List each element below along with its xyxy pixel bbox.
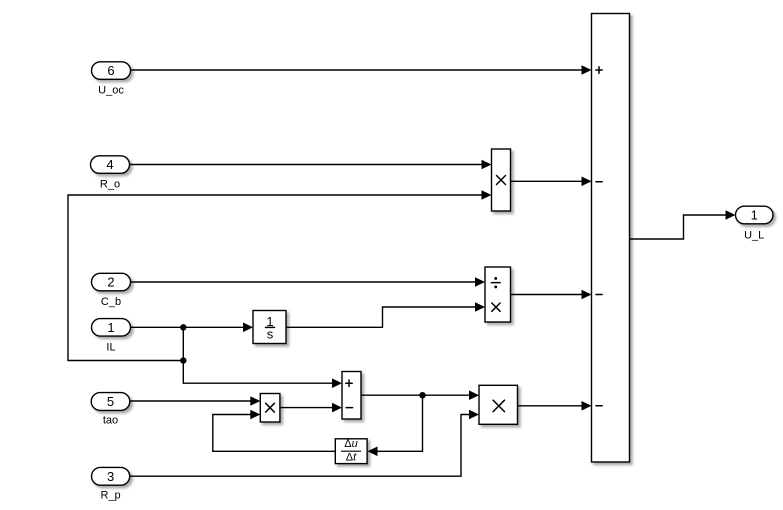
svg-text:5: 5: [107, 394, 114, 409]
svg-text:U_L: U_L: [744, 230, 764, 242]
svg-text:R_p: R_p: [101, 490, 121, 502]
svg-text:3: 3: [107, 469, 114, 484]
svg-text:Δt: Δt: [346, 452, 357, 464]
svg-text:tao: tao: [103, 415, 118, 427]
svg-text:Δu: Δu: [344, 438, 357, 450]
svg-text:4: 4: [106, 157, 113, 172]
svg-text:IL: IL: [106, 342, 115, 354]
svg-text:R_o: R_o: [100, 179, 120, 191]
svg-text:1: 1: [751, 208, 758, 223]
svg-text:1: 1: [107, 320, 114, 335]
svg-text:6: 6: [107, 63, 114, 78]
svg-text:s: s: [267, 327, 274, 342]
svg-text:C_b: C_b: [101, 296, 121, 308]
svg-text:2: 2: [107, 275, 114, 290]
svg-text:U_oc: U_oc: [98, 85, 124, 97]
